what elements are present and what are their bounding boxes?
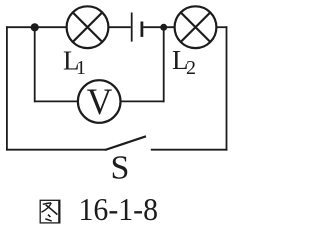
wire battery to lamp L2 <box>143 26 175 28</box>
node junction dot left <box>31 23 39 31</box>
wire voltmeter branch right horizontal <box>121 100 165 102</box>
wire lamp L1 to battery <box>109 26 131 28</box>
svg-text:16-1-8: 16-1-8 <box>79 192 159 227</box>
svg-text:V: V <box>87 81 113 122</box>
wire bottom-left to switch <box>6 149 106 151</box>
lamp L2 <box>175 6 217 48</box>
wire lamp L2 to top-right corner <box>216 26 227 28</box>
wire right vertical <box>226 26 228 150</box>
svg-text:2: 2 <box>186 57 196 79</box>
wire voltmeter branch right vertical <box>163 27 165 102</box>
svg-text:1: 1 <box>76 57 86 79</box>
wire voltmeter branch left vertical <box>34 27 36 102</box>
node junction dot right <box>160 24 167 31</box>
voltmeter U1 <box>78 80 121 123</box>
wire left vertical <box>6 26 8 150</box>
wire voltmeter branch left horizontal <box>34 100 78 102</box>
caption glyph 图 <box>40 200 60 223</box>
switch S blade <box>105 136 146 150</box>
lamp L1 <box>67 6 109 48</box>
svg-text:S: S <box>111 149 130 186</box>
battery short plate (negative) <box>140 22 143 37</box>
battery long plate (positive) <box>131 13 133 42</box>
wire switch to bottom-right corner <box>151 149 228 151</box>
wire top-left segment <box>6 26 67 28</box>
